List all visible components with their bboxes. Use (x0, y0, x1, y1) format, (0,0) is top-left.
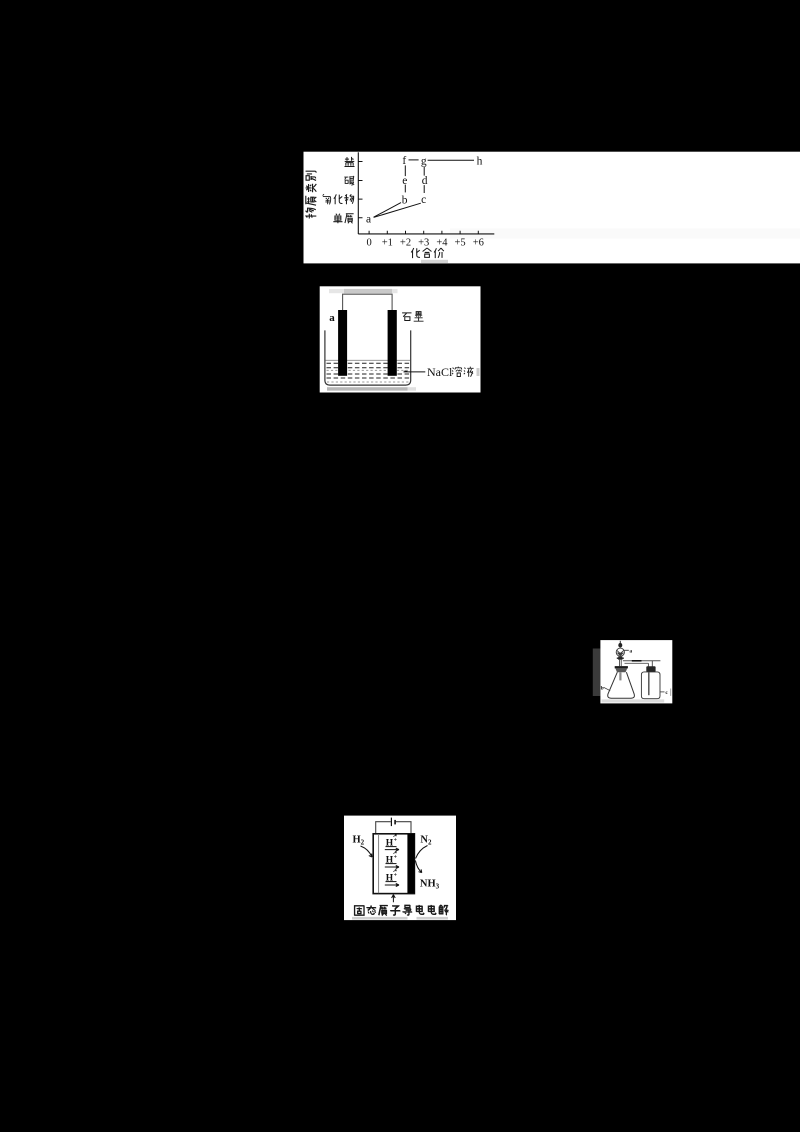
grey shadow under x-axis title (421, 260, 448, 263)
link g-d (423, 167, 425, 176)
svg-text:+3: +3 (418, 238, 429, 249)
H+ row 1 (386, 838, 398, 849)
right electrode (graphite) (388, 310, 397, 376)
flask panel background (600, 640, 672, 703)
rotated y-axis title 物质类别 (bottom-to-top) (306, 208, 317, 218)
chart white band (304, 152, 800, 264)
funnel side arm (624, 649, 629, 651)
stopcock (618, 657, 622, 660)
svg-text:a: a (629, 649, 632, 655)
funnel inner V (617, 650, 624, 653)
dark section of tube (632, 660, 642, 662)
svg-text:c: c (421, 194, 426, 206)
gas outlet tube (623, 660, 661, 662)
H+ row 2 arrow (385, 866, 399, 869)
svg-text:+4: +4 (436, 238, 448, 249)
svg-text:+5: +5 (455, 238, 466, 249)
electrode to NH3 curved arrow (415, 861, 421, 873)
link d-c (423, 185, 425, 193)
funnel stopper stem (619, 641, 621, 643)
svg-text:+: + (394, 838, 398, 844)
x-axis (358, 233, 494, 235)
svg-text:+2: +2 (400, 238, 411, 249)
label 石墨 (graphite) (402, 313, 411, 321)
dark grey scan bar left of panel (593, 649, 601, 697)
solution surface line (326, 359, 410, 361)
solution dashed row 2 (327, 367, 410, 369)
link e-b (404, 185, 406, 193)
svg-text:b: b (402, 195, 408, 207)
left electrode (graphite) (338, 310, 347, 376)
electrolysis panel background (320, 286, 481, 392)
svg-text:g: g (421, 155, 427, 167)
y-axis (357, 152, 359, 234)
svg-text:NaCl: NaCl (427, 365, 453, 379)
svg-text:b: b (601, 685, 604, 691)
bottom scan shadow strip (602, 699, 665, 702)
solution dashed row 3 (327, 373, 410, 375)
y category label: element (2 chars) (333, 214, 342, 224)
funnel stem inside flask (619, 672, 621, 680)
line a-b (374, 203, 401, 218)
link f-g (409, 159, 419, 161)
solution dashed row 4 (327, 377, 410, 379)
x ticks (369, 231, 478, 234)
H+ row 3 (386, 873, 398, 884)
leader line from b to flask (604, 687, 611, 690)
gas bottle cap (646, 666, 655, 672)
funnel stopper knob (618, 643, 622, 648)
H+ row 3 arrow (385, 884, 399, 887)
left electrode inner line (378, 834, 380, 893)
grey scan patch right of label (477, 368, 480, 376)
leader line from bottle to c (660, 691, 664, 693)
svg-text:0: 0 (366, 238, 371, 249)
svg-text:+6: +6 (473, 238, 484, 249)
bottom scan shadow strip (327, 387, 408, 391)
caption 固态质子导电电解 (354, 906, 363, 915)
faint scan stripe across band (450, 229, 800, 239)
svg-text:a: a (329, 312, 335, 324)
N2 curved arrow to electrode (416, 846, 428, 859)
svg-text:+1: +1 (382, 238, 393, 249)
tube inside bottle (648, 672, 650, 695)
svg-text:+: + (394, 855, 398, 861)
battery long plate (390, 818, 392, 827)
solution dotted row bottom (light) (327, 381, 409, 383)
funnel lower dark wedge (617, 653, 624, 657)
y category label: oxide (3 chars) (323, 194, 331, 204)
erlenmeyer flask body (608, 672, 635, 698)
H+ row 1 arrow (385, 848, 399, 851)
faint grey mark right of c (670, 689, 671, 696)
top scan shadow strip (329, 289, 344, 293)
svg-text:f: f (402, 155, 406, 167)
y category label: base (344, 176, 354, 186)
gas bottle body (641, 672, 660, 699)
right electrode black slab (407, 834, 414, 893)
fuel cell panel background (344, 816, 456, 921)
upward arrow below cell (392, 895, 396, 903)
flask rubber stopper (615, 666, 628, 668)
dropping funnel bulb (616, 648, 624, 656)
solution dashed row 1 (327, 362, 410, 364)
y category label: salt (344, 157, 354, 167)
x-axis title 化合价 (411, 248, 420, 258)
svg-text:a: a (366, 213, 371, 225)
svg-text:+: + (394, 873, 398, 879)
battery short plate (394, 820, 396, 825)
funnel stem (620, 660, 622, 666)
solution dotted row (light) (327, 369, 410, 371)
H+ row 2 (386, 855, 398, 866)
H2 curved arrow (361, 846, 373, 857)
leader line to NaCl label with small arrow tail (404, 371, 426, 372)
cell outer rectangle (373, 834, 414, 894)
line a-c (374, 203, 421, 217)
link f-e (404, 165, 406, 176)
svg-text:h: h (477, 155, 483, 167)
link g-h (428, 159, 474, 161)
circuit wire (376, 822, 411, 834)
svg-text:d: d (422, 175, 428, 187)
tube bend down to bottle (648, 661, 652, 667)
connecting wire between electrodes (343, 294, 393, 310)
beaker (325, 330, 411, 385)
y ticks (358, 162, 362, 218)
caption underline scan strips (352, 917, 408, 920)
